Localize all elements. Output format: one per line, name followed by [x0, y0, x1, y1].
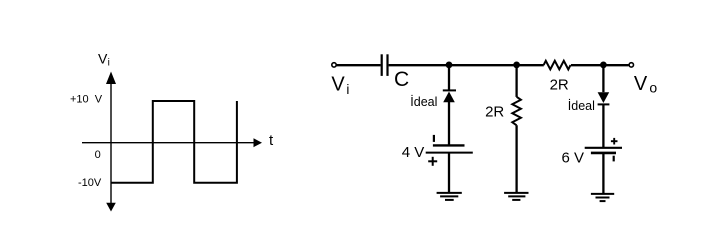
capacitor C	[382, 54, 388, 76]
wire node A to diode D1	[448, 65, 450, 90]
wire capacitor to series resistor	[389, 64, 544, 66]
battery 4V	[426, 135, 473, 166]
wire series resistor to node C	[571, 64, 629, 66]
svg-text:0: 0	[95, 149, 101, 161]
svg-text:i: i	[346, 82, 349, 97]
wire input terminal to capacitor	[336, 64, 380, 66]
svg-text:i: i	[108, 58, 110, 69]
svg-text:+10: +10	[70, 94, 89, 106]
svg-text:t: t	[269, 132, 274, 149]
waveform vertical axis Vi	[106, 72, 116, 212]
diode D2 ideal (cathode down)	[598, 92, 610, 104]
battery 6V	[585, 138, 622, 162]
svg-text:4 V: 4 V	[402, 144, 425, 161]
diode D1 ideal (cathode up)	[443, 90, 456, 102]
label Vi input	[331, 74, 349, 97]
svg-text:o: o	[649, 80, 657, 96]
square wave Vi waveform	[111, 101, 237, 183]
wire diode D2 to battery 6V	[602, 104, 604, 148]
node B junction dot	[513, 62, 520, 69]
node A junction dot	[446, 62, 453, 69]
wire diode D1 to battery 4V	[448, 101, 450, 146]
wire battery 4V to ground	[448, 153, 450, 193]
label Vo output	[634, 73, 658, 96]
svg-text:İdeal: İdeal	[410, 95, 437, 109]
svg-text:2R: 2R	[550, 77, 569, 94]
resistor 2R shunt	[512, 97, 521, 126]
wire battery 6V to ground	[602, 153, 604, 194]
wire node C to diode D2	[602, 65, 604, 92]
node C junction dot	[600, 62, 607, 69]
svg-text:6 V: 6 V	[562, 149, 585, 166]
ground below battery 4V	[437, 193, 462, 200]
input terminal Vi	[332, 63, 336, 67]
svg-text:İdeal: İdeal	[568, 99, 595, 113]
waveform horizontal axis t	[82, 138, 262, 147]
svg-text:C: C	[394, 68, 409, 91]
svg-text:V: V	[634, 73, 648, 95]
ground below shunt resistor	[504, 193, 528, 200]
wire shunt resistor to ground	[515, 125, 517, 193]
resistor 2R series	[544, 61, 571, 70]
svg-text:2R: 2R	[485, 103, 504, 120]
svg-text:V: V	[331, 74, 345, 96]
wire node B to shunt resistor	[515, 65, 517, 97]
output terminal Vo	[629, 63, 633, 67]
svg-text:-10V: -10V	[78, 177, 102, 189]
svg-text:V: V	[95, 94, 103, 106]
axis label Vi	[98, 51, 110, 69]
svg-text:V: V	[98, 51, 108, 67]
ground below battery 6V	[591, 194, 614, 201]
